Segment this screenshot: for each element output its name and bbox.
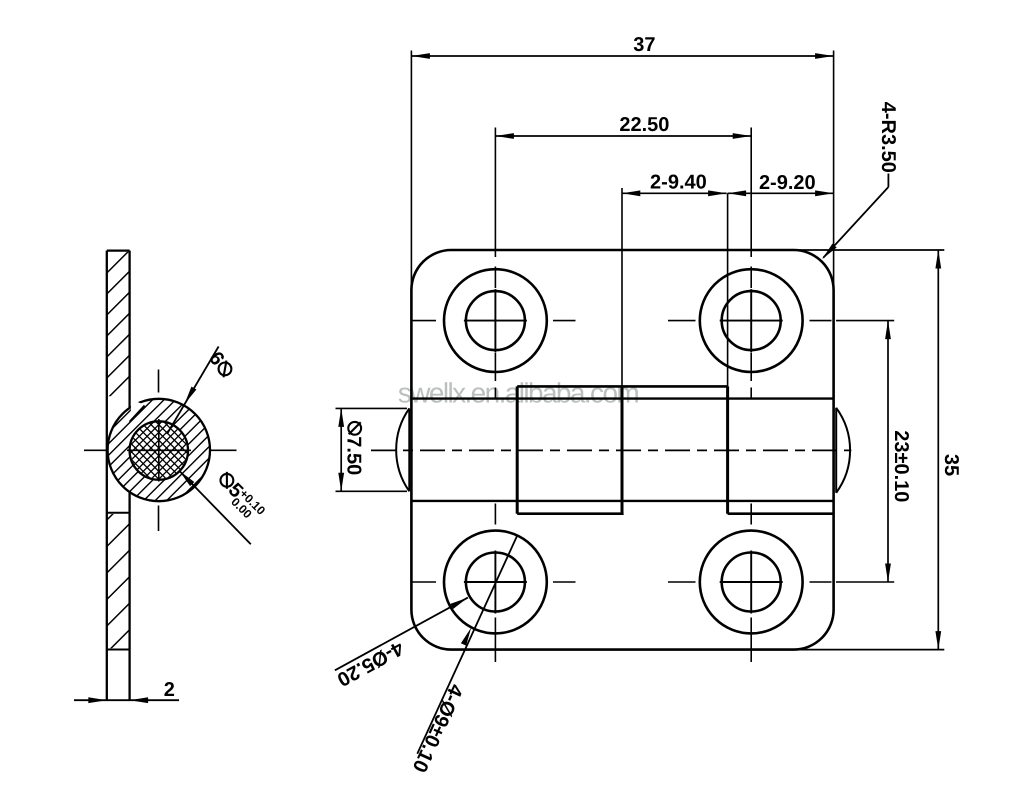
- knuckle barrel circle (side view): [99, 230, 219, 661]
- dimension 22.50 (hole spacing horizontal): [495, 114, 751, 139]
- barrel dashed centerline: [371, 449, 851, 451]
- top-right mounting hole (counterbore dia9 / dia5.20): [700, 269, 803, 372]
- leaf-to-knuckle transition line: [130, 406, 145, 422]
- leaf-to-knuckle gap wedge: [131, 400, 145, 421]
- bottom-left mounting hole (counterbore dia9 / dia5.20): [444, 531, 547, 634]
- leader 6-dia (knuckle outer diameter): [167, 347, 237, 435]
- dimension 35 (overall height): [793, 250, 962, 650]
- svg-text:2-9.40: 2-9.40: [650, 172, 707, 194]
- hole column centerlines (vertical): [495, 128, 751, 663]
- hinge body outline (front view, rounded square): [411, 250, 833, 650]
- svg-text:2-9.20: 2-9.20: [759, 172, 816, 194]
- knuckle centerlines (side view): [84, 370, 237, 532]
- knuckle division / extension line at x=622: [621, 188, 623, 514]
- hole row centerlines (horizontal): [413, 321, 895, 582]
- svg-text:37: 37: [633, 34, 655, 56]
- leader dia5 +0.10/0.00 (pin hole): [179, 469, 268, 544]
- svg-text:2: 2: [164, 679, 175, 701]
- dimension 2-9.20 (knuckle width): [728, 172, 834, 196]
- dimension 23 plus-minus 0.10 (hole spacing vertical): [885, 321, 912, 582]
- svg-text:22.50: 22.50: [619, 114, 669, 136]
- barrel outer lines: [411, 399, 833, 501]
- hinge pin cross-section (cross-hatched): [119, 330, 199, 566]
- watermark swellx.en.alibaba.com: [398, 378, 639, 409]
- knuckle division / extension line at x=727.6: [727, 193, 729, 513]
- top-left mounting hole (counterbore dia9 / dia5.20): [444, 269, 547, 372]
- dimension 37 (overall width): [411, 34, 833, 290]
- hinge body border stroke: [411, 250, 833, 650]
- left pin end cap: [396, 408, 409, 491]
- dimension 2 (plate thickness): [74, 679, 179, 703]
- leader 4-dia9 plus-minus 0.10 (counterbore callout): [408, 536, 517, 775]
- center knuckle raised profile: [517, 386, 833, 513]
- svg-text:7.50: 7.50: [342, 436, 364, 475]
- side view plate leaf (hatched section): [107, 229, 130, 700]
- svg-text:23±0.10: 23±0.10: [890, 430, 912, 502]
- leader 4-R3.50 (corner radius): [822, 102, 899, 259]
- dimension 2-9.40 (knuckle width): [622, 172, 727, 197]
- bottom-right mounting hole (counterbore dia9 / dia5.20): [700, 531, 803, 634]
- dimension dia7.50 (pin diameter): [336, 408, 408, 491]
- svg-text:35: 35: [940, 454, 962, 476]
- svg-text:4-R3.50: 4-R3.50: [877, 102, 899, 173]
- leader 4-dia5.20 (inner hole callout): [333, 598, 468, 691]
- right pin end cap: [836, 408, 850, 493]
